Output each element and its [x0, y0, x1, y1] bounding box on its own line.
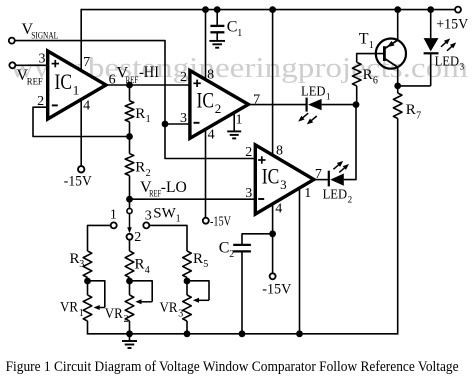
svg-text:7: 7 — [83, 55, 90, 70]
svg-text:1: 1 — [304, 186, 311, 201]
svg-text:4: 4 — [83, 99, 90, 114]
svg-text:Figure 1 Circuit Diagram of Vo: Figure 1 Circuit Diagram of Voltage Wind… — [6, 359, 459, 375]
svg-text:2: 2 — [134, 230, 141, 245]
svg-text:7: 7 — [253, 92, 260, 107]
svg-text:3: 3 — [280, 177, 287, 192]
svg-text:R: R — [135, 106, 145, 122]
svg-text:6: 6 — [109, 72, 116, 87]
svg-text:1: 1 — [146, 114, 151, 125]
svg-text:-LO: -LO — [161, 179, 187, 196]
svg-text:VR: VR — [60, 299, 78, 315]
svg-text:R: R — [70, 251, 80, 267]
svg-text:1: 1 — [237, 28, 242, 39]
svg-text:3: 3 — [39, 51, 46, 66]
svg-text:R: R — [135, 160, 145, 176]
svg-text:-HI: -HI — [139, 64, 159, 81]
svg-text:1: 1 — [110, 208, 117, 223]
svg-text:5: 5 — [203, 259, 208, 270]
svg-text:C: C — [219, 239, 230, 256]
svg-text:2: 2 — [37, 94, 44, 109]
svg-text:3: 3 — [180, 111, 187, 126]
svg-text:2: 2 — [215, 101, 222, 116]
svg-text:3: 3 — [460, 62, 465, 72]
svg-text:REF: REF — [126, 76, 139, 86]
svg-text:3: 3 — [178, 309, 183, 320]
svg-text:R: R — [193, 251, 203, 267]
svg-text:8: 8 — [276, 144, 283, 159]
svg-text:R: R — [135, 256, 145, 272]
svg-text:4: 4 — [275, 202, 282, 217]
svg-text:VR: VR — [105, 306, 123, 322]
svg-text:REF: REF — [27, 78, 43, 88]
svg-text:1: 1 — [176, 214, 181, 225]
svg-text:1: 1 — [73, 82, 80, 97]
svg-text:6: 6 — [373, 76, 378, 87]
svg-text:R: R — [406, 102, 416, 118]
svg-text:3: 3 — [145, 209, 152, 224]
svg-text:2: 2 — [348, 194, 353, 204]
svg-text:C: C — [227, 18, 238, 35]
svg-text:REF: REF — [149, 190, 161, 200]
svg-text:7: 7 — [416, 110, 421, 121]
svg-text:LED: LED — [435, 55, 460, 70]
svg-text:8: 8 — [207, 68, 214, 83]
svg-text:3: 3 — [245, 186, 252, 201]
svg-text:LED: LED — [323, 187, 348, 202]
svg-text:R: R — [363, 67, 373, 83]
svg-text:2: 2 — [180, 70, 187, 85]
svg-text:IC: IC — [262, 164, 280, 189]
svg-text:-15V: -15V — [64, 173, 92, 189]
svg-text:7: 7 — [315, 167, 322, 182]
svg-text:1: 1 — [236, 112, 243, 127]
svg-text:1: 1 — [326, 92, 331, 102]
svg-text:+15V: +15V — [436, 17, 468, 33]
svg-text:SIGNAL: SIGNAL — [31, 32, 58, 42]
svg-text:2: 2 — [229, 249, 234, 260]
svg-text:T: T — [359, 31, 369, 48]
svg-text:1: 1 — [369, 40, 374, 51]
svg-text:4: 4 — [208, 128, 215, 143]
svg-text:2: 2 — [146, 168, 151, 179]
svg-text:-15V: -15V — [210, 214, 231, 229]
svg-text:2: 2 — [124, 314, 129, 325]
svg-text:3: 3 — [79, 259, 84, 270]
svg-text:VR: VR — [160, 300, 178, 316]
svg-text:2: 2 — [245, 145, 252, 160]
svg-text:IC: IC — [55, 69, 73, 94]
svg-text:SW: SW — [153, 205, 176, 221]
svg-text:4: 4 — [145, 265, 150, 276]
svg-text:1: 1 — [79, 308, 84, 319]
svg-text:LED: LED — [301, 85, 326, 100]
svg-text:IC: IC — [197, 88, 215, 113]
svg-text:-15V: -15V — [262, 282, 291, 298]
